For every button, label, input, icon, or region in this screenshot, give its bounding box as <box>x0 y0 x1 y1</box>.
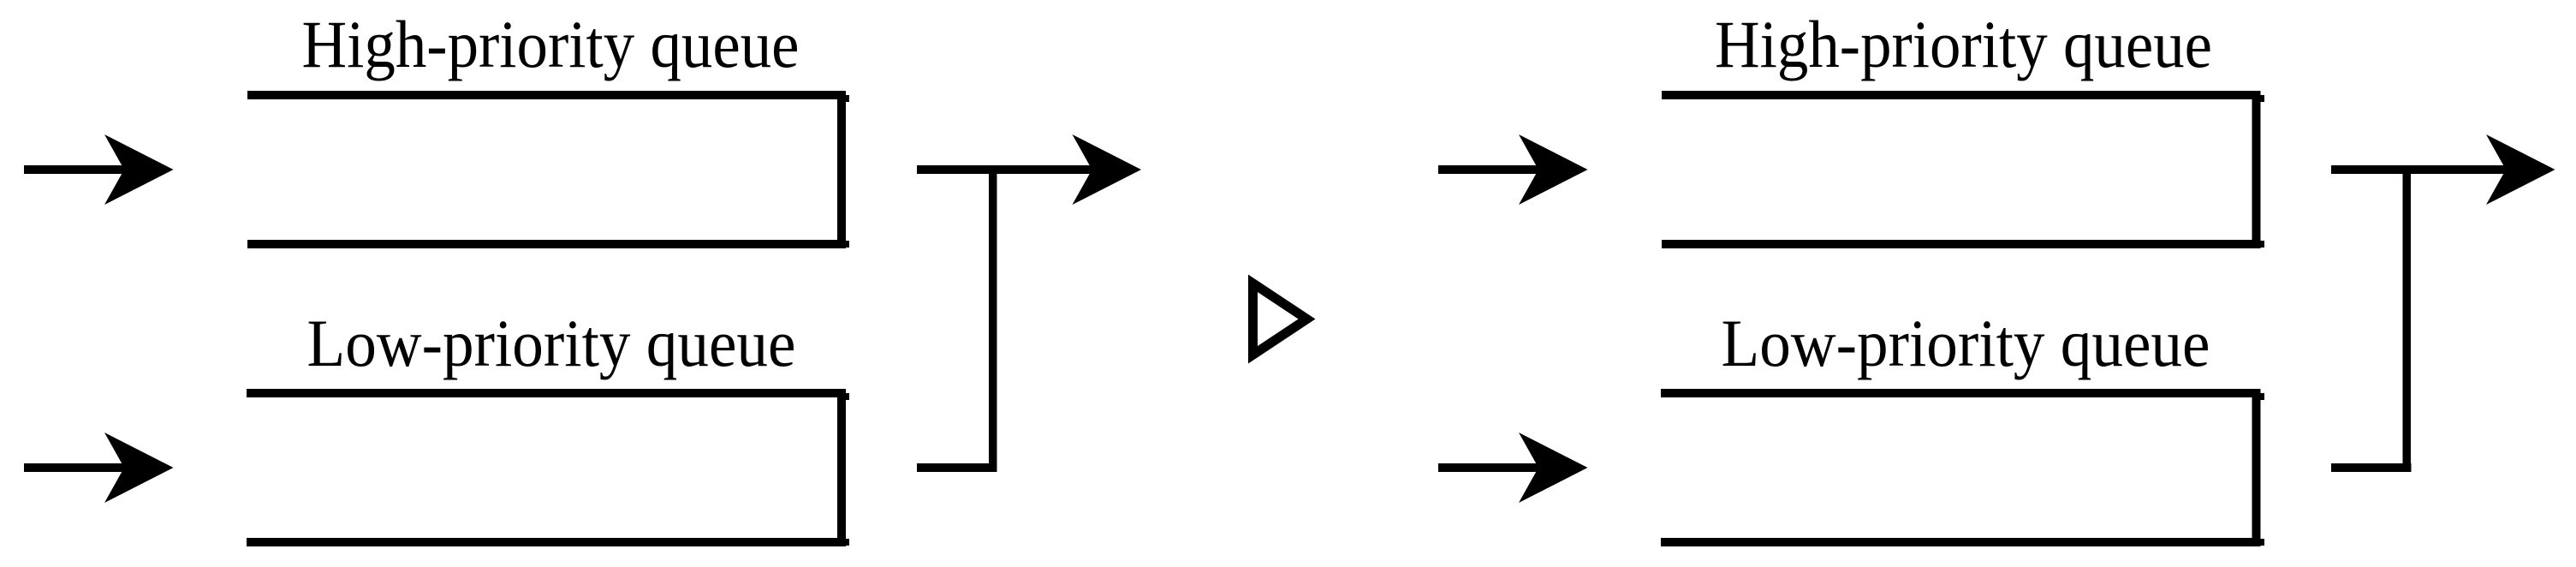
label: Low-priority queue (right) <box>1722 306 2210 380</box>
label: High-priority queue (right) <box>1715 7 2212 81</box>
wire: input arrow shaft into left low-priority queue <box>24 463 127 472</box>
right high-priority queue (open rectangle) <box>1662 95 2264 248</box>
wire: right merge vertical <box>2403 168 2412 472</box>
wire: left scheduler output horizontal <box>917 165 1094 174</box>
svg-text:Low-priority queue: Low-priority queue <box>1722 306 2210 380</box>
svg-text:High-priority queue: High-priority queue <box>1715 7 2212 81</box>
wire: input arrow shaft into right high-priority queue <box>1438 165 1541 174</box>
arrowhead: left scheduler output arrow <box>1073 134 1142 205</box>
svg-text:Low-priority queue: Low-priority queue <box>307 306 796 380</box>
arrowhead: input arrow into right high-priority queue <box>1519 134 1588 205</box>
wire: left merge vertical <box>989 168 997 472</box>
left low-priority queue (open rectangle) <box>247 393 849 546</box>
arrowhead: input arrow into left high-priority queue <box>104 134 174 205</box>
right low-priority queue (open rectangle) <box>1661 393 2264 546</box>
arrowhead: input arrow into right low-priority queue <box>1519 433 1588 503</box>
svg-text:High-priority queue: High-priority queue <box>302 7 800 81</box>
arrowhead: right scheduler output arrow <box>2486 134 2555 205</box>
label: High-priority queue (left) <box>302 7 800 81</box>
arrowhead: input arrow into left low-priority queue <box>104 433 174 503</box>
wire: input arrow shaft into right low-priority queue <box>1438 463 1541 472</box>
wire: left merge bottom stub <box>917 463 997 472</box>
transformation triangle (evolves-to symbol) <box>1248 275 1316 364</box>
wire: right scheduler output horizontal <box>2331 165 2508 174</box>
label: Low-priority queue (left) <box>307 306 796 380</box>
wire: right merge bottom stub <box>2331 463 2412 472</box>
wire: input arrow shaft into left high-priority queue <box>24 165 127 174</box>
left high-priority queue (open rectangle) <box>247 95 849 248</box>
